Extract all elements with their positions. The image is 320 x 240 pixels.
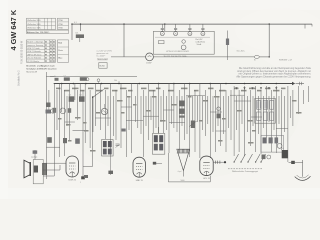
- AVC return wire: [46, 75, 54, 77]
- wire V24: [158, 84, 160, 134]
- wire V41: [244, 86, 246, 156]
- wire V70: [181, 96, 183, 126]
- resistor chain R20: [179, 101, 184, 118]
- svg-text:Blau: Blau: [58, 57, 62, 59]
- wire V76: [212, 96, 214, 132]
- resistor R31: [63, 138, 67, 143]
- wire V4: [59, 84, 61, 158]
- antenna coil group left: [46, 103, 56, 114]
- svg-text:FLW 3000 00 0530 W: FLW 3000 00 0530 W: [21, 40, 24, 64]
- rectifier annotation UY1N: [97, 51, 113, 58]
- svg-text:0,1: 0,1: [74, 22, 77, 24]
- wire V43: [255, 86, 257, 152]
- svg-text:U 187: U 187: [146, 62, 152, 64]
- wire V80: [236, 96, 238, 130]
- svg-text:0,1A (West): 0,1A (West): [196, 41, 206, 44]
- svg-text:Skalenl. u. Anzeige: Skalenl. u. Anzeige: [27, 41, 43, 44]
- return wire under funnel: [168, 153, 210, 182]
- svg-text:Wellenber KML: Wellenber KML: [27, 28, 42, 30]
- IF transformer T1: [102, 140, 114, 157]
- svg-text:UCH 21 Triode: UCH 21 Triode: [27, 47, 40, 50]
- wire V1: [45, 72, 47, 179]
- wire V50: [292, 90, 294, 126]
- tie wire under tube V1: [83, 96, 92, 167]
- link wire y130 left: [46, 146, 60, 148]
- svg-text:Schaltplan 4GW647K beachten: Schaltplan 4GW647K beachten: [26, 68, 57, 71]
- tube V2 UBF11 IF-demod: [133, 157, 145, 182]
- underlined note: [97, 58, 108, 60]
- wire V16: [115, 90, 117, 140]
- wire V47: [275, 86, 277, 153]
- wire V67: [166, 96, 168, 130]
- svg-text:U = 220V~: U = 220V~: [97, 55, 107, 57]
- coupling capacitor C15: [73, 129, 126, 132]
- wire V3: [48, 90, 50, 112]
- voltage adjust label: [237, 50, 246, 53]
- chassis ground bus wire: [54, 83, 292, 85]
- dropper resistor wire right of heater box: [226, 31, 229, 61]
- IF transformer T2: [152, 127, 164, 154]
- svg-text:Mod: Mod: [58, 43, 62, 45]
- wire V61: [135, 96, 137, 122]
- wire V64: [150, 96, 152, 120]
- wire V6: [64, 90, 66, 156]
- tone network cluster: [261, 136, 284, 153]
- resistor R1 0,3M: [69, 95, 75, 102]
- wire V39: [233, 86, 235, 156]
- capacitor C31: [75, 138, 80, 143]
- wire V21: [142, 90, 144, 157]
- heater decoupling capacitors C1-C4: [161, 24, 205, 31]
- wire V2: [53, 84, 55, 177]
- wire V81: [241, 96, 243, 124]
- voltage selector caption: [164, 56, 189, 58]
- wire V5: [61, 84, 63, 113]
- svg-text:Schaltbild Nr 2: Schaltbild Nr 2: [18, 70, 21, 86]
- antenna down-lead wire: [302, 160, 304, 177]
- wire junction at x80: [80, 23, 81, 31]
- table: voltages and parts list: [27, 40, 69, 63]
- trimmer caps T1: [116, 144, 120, 148]
- svg-text:RGW 687 + 4,7: RGW 687 + 4,7: [279, 60, 292, 62]
- wire V37: [225, 90, 227, 152]
- switch S1 contact: [92, 89, 104, 98]
- wire V38: [230, 90, 232, 140]
- loudspeaker LS with output coil: [24, 150, 47, 184]
- wire V69: [176, 96, 178, 132]
- svg-text:50k: 50k: [79, 95, 82, 97]
- wire V58: [107, 96, 109, 126]
- coupling cap at tube V3 anode: [213, 161, 226, 164]
- mains dropper wire: [123, 23, 124, 57]
- svg-text:4 GW 647 K: 4 GW 647 K: [9, 9, 18, 50]
- wire drop to lamp box: [269, 23, 270, 57]
- wire V28: [178, 90, 180, 149]
- funnel connector label: [178, 171, 182, 173]
- resistor R10 on AVC line: [64, 76, 70, 81]
- schematic title 4 GW 647 K: [9, 9, 18, 50]
- svg-text:0,3: 0,3: [69, 95, 71, 97]
- component value labels row: [56, 88, 286, 92]
- wire V36: [220, 84, 222, 147]
- svg-text:Lampe m. Fassung: Lampe m. Fassung: [27, 45, 43, 47]
- component row right of tube V1: [80, 175, 88, 184]
- svg-text:Bestell-Nr. und Abgleich nach: Bestell-Nr. und Abgleich nach: [26, 65, 55, 68]
- drawing number vertical note: [18, 40, 24, 86]
- wire V27: [173, 84, 175, 129]
- svg-text:UCH 21: UCH 21: [68, 180, 76, 182]
- wire V14: [105, 90, 107, 139]
- table: tube complement: [27, 18, 69, 29]
- svg-text:UBF 11: UBF 11: [136, 180, 144, 182]
- wire V72: [192, 96, 194, 128]
- small trimmer above bus: [97, 79, 100, 84]
- wire V7: [69, 84, 71, 141]
- cathode wire to chassis terminal: [81, 90, 85, 179]
- wire V86: [268, 96, 270, 122]
- wire V74: [202, 96, 204, 130]
- wire V57: [92, 96, 94, 132]
- paper mottle: [20, 8, 320, 180]
- wire V34: [209, 84, 211, 159]
- wire V17: [120, 84, 122, 149]
- svg-text:UBF 11 NF-Vorst: UBF 11 NF-Vorst: [27, 53, 42, 56]
- wire V11: [89, 90, 91, 148]
- svg-text:Ger.-Sich.: Ger.-Sich.: [237, 50, 246, 53]
- wire fuse to mains: [259, 56, 270, 57]
- wire V45: [265, 86, 267, 138]
- wire V83: [252, 96, 254, 126]
- svg-text:Stand 10.49: Stand 10.49: [26, 70, 38, 73]
- wire V90: [290, 96, 292, 118]
- label above bus x117: [114, 80, 119, 84]
- output transformer T3: [255, 98, 276, 123]
- arrows under ground bus: [235, 87, 277, 89]
- svg-text:UCL 11: UCL 11: [203, 178, 211, 180]
- wave switch contacts S2: [234, 154, 266, 163]
- wire V48: [281, 90, 283, 150]
- wire V89: [284, 96, 286, 132]
- wire V73: [197, 96, 199, 122]
- left components row y108: [53, 108, 72, 114]
- service note paragraph: [236, 67, 311, 79]
- wire V59: [113, 96, 115, 136]
- resistor R11: [80, 77, 89, 81]
- wire V78: [223, 96, 225, 134]
- svg-text:20k: 20k: [114, 80, 117, 82]
- wire V15: [110, 84, 112, 158]
- wire V52: [303, 90, 305, 104]
- wire V53: [308, 86, 310, 102]
- wire V71: [186, 96, 188, 134]
- wire lamp to selector: [153, 56, 254, 58]
- detector link wire: [216, 130, 226, 132]
- wire V63: [145, 96, 147, 126]
- wire V8: [74, 84, 76, 101]
- wire V65: [155, 96, 157, 128]
- label on top bus: [74, 22, 77, 24]
- wire V82: [247, 96, 249, 132]
- ground bus junction dots: [61, 83, 277, 85]
- svg-text:0,1: 0,1: [64, 76, 66, 78]
- wire V87: [273, 96, 275, 130]
- speaker connect wires: [43, 163, 66, 176]
- antenna symbol: [295, 175, 311, 181]
- svg-text:Wellenschalter Tastenaggregat: Wellenschalter Tastenaggregat: [232, 170, 258, 173]
- svg-text:UY1N UCL11 UBF11 UCH21: UY1N UCL11 UBF11 UCH21: [166, 51, 189, 53]
- svg-text:110 125 150 200 220 240V~: 110 125 150 200 220 240V~: [164, 56, 189, 58]
- fuse Si1: [254, 55, 259, 61]
- pickup terminal dark blob: [289, 161, 303, 164]
- output link wire: [276, 128, 288, 130]
- wire V32: [199, 84, 201, 159]
- resistor R2 50k: [79, 95, 85, 102]
- heater feed wire: [164, 23, 165, 31]
- wire V13: [99, 84, 101, 131]
- wire V85: [263, 96, 265, 128]
- wire V25: [163, 90, 165, 133]
- svg-text:Alle Spannungen gegen Chassis: Alle Spannungen gegen Chassis gemessen b…: [236, 76, 311, 79]
- pilot lamp La1: [146, 53, 154, 64]
- wire V79: [228, 96, 230, 128]
- svg-text:Allstrom-Ger. 110-240V~: Allstrom-Ger. 110-240V~: [27, 31, 51, 34]
- electrolytic block C50: [99, 63, 107, 69]
- wire V10: [84, 84, 86, 144]
- mains plug symbol: [292, 82, 304, 85]
- wire V55: [66, 96, 68, 126]
- svg-text:UCH 21 Hexode: UCH 21 Hexode: [27, 51, 41, 53]
- svg-text:Dr1: Dr1: [76, 33, 79, 35]
- wire V51: [297, 86, 299, 114]
- wire V35: [215, 90, 217, 152]
- wire V18: [125, 90, 127, 157]
- right end tick of top bus: [305, 24, 312, 28]
- svg-text:Wellenber KML: Wellenber KML: [27, 20, 42, 22]
- ground terminal under T2: [153, 162, 162, 165]
- svg-text:Spannungen: Spannungen: [97, 58, 108, 60]
- wire V44: [260, 90, 262, 154]
- table caption row Allstrom: [27, 30, 69, 34]
- wire V31: [194, 90, 196, 152]
- svg-text:UCL 11 Endstufe: UCL 11 Endstufe: [27, 57, 41, 60]
- top bus left drop wire: [71, 23, 72, 40]
- wire V9: [79, 84, 81, 101]
- wire V33: [204, 90, 206, 136]
- wire V19: [131, 84, 133, 154]
- svg-text:50: 50: [282, 148, 284, 150]
- speaker field label: [181, 180, 185, 182]
- wire V20: [137, 84, 139, 129]
- oscillator coil L1: [101, 104, 107, 115]
- svg-text:1: 1: [80, 182, 81, 184]
- wire V84: [258, 96, 260, 134]
- volume pot P1: [189, 121, 197, 129]
- feed wire to pilot lamp: [111, 56, 146, 58]
- B+ top bus wire: [72, 23, 312, 25]
- right side coupling parts: [262, 155, 271, 160]
- heater chain box with tube heaters: [153, 31, 214, 54]
- wire V66: [160, 96, 162, 122]
- wire V68: [171, 96, 173, 124]
- link wire tie rows: [65, 95, 262, 122]
- wire V22: [147, 84, 149, 141]
- svg-text:50mA: 50mA: [197, 43, 202, 46]
- wire V30: [189, 84, 191, 158]
- wire V12: [94, 84, 96, 127]
- link wire grid row: [126, 120, 184, 122]
- wire V29: [184, 84, 186, 141]
- wire V26: [168, 84, 170, 154]
- tube V1 UCH21 mixer: [66, 156, 78, 182]
- coupling cap C10: [54, 76, 59, 81]
- tuning drive cone: [177, 149, 190, 176]
- wave switch label: [232, 170, 258, 173]
- svg-text:UY 1N Gleichr.: UY 1N Gleichr.: [27, 60, 40, 63]
- wire V40: [238, 90, 240, 152]
- wire V46: [270, 90, 272, 152]
- wire V56: [77, 90, 79, 120]
- mains rating label: [279, 60, 292, 62]
- link wire y101 right: [230, 95, 251, 101]
- wire V88: [278, 96, 280, 124]
- wave switch dashed frame: [228, 168, 262, 170]
- wire V62: [140, 96, 142, 134]
- wire V77: [217, 96, 219, 126]
- svg-text:Preis: Preis: [58, 50, 63, 52]
- wire V60: [128, 96, 130, 130]
- wire V49: [287, 86, 289, 162]
- wire V54: [56, 90, 58, 130]
- wire V75: [207, 96, 209, 124]
- svg-text:Wellenber KML: Wellenber KML: [27, 24, 42, 26]
- noise suppressor choke Dr1: [76, 33, 85, 42]
- svg-text:B 250: B 250: [100, 65, 105, 67]
- assorted value annotations: [58, 96, 302, 152]
- electrolytic C60 dark box: [282, 148, 288, 158]
- wire V42: [250, 90, 252, 146]
- detector diode parts: [217, 107, 221, 118]
- order number note lines: [26, 65, 57, 74]
- svg-text:5000: 5000: [181, 180, 185, 182]
- svg-text:4-pol: 4-pol: [178, 171, 182, 173]
- wire V23: [152, 90, 154, 133]
- tube V3 UCL11 output: [200, 156, 213, 180]
- svg-text:Lautspr.: Lautspr.: [31, 155, 38, 158]
- AVC line wire: [50, 75, 137, 77]
- resistor R30: [47, 137, 52, 143]
- grid leak terminal: [108, 157, 113, 175]
